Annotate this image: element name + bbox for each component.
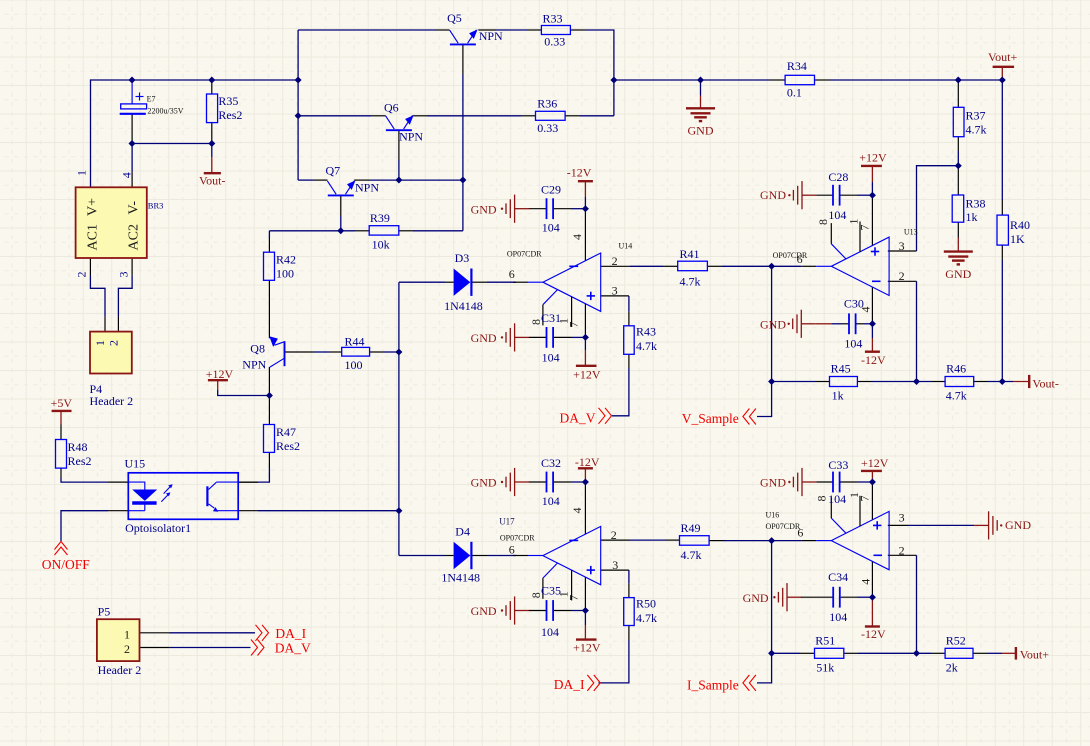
svg-text:U16: U16 (766, 511, 780, 520)
svg-text:Header 2: Header 2 (98, 663, 142, 677)
svg-text:Vout-: Vout- (199, 173, 225, 187)
svg-text:Vout+: Vout+ (988, 50, 1017, 64)
svg-text:3: 3 (899, 239, 905, 253)
svg-text:R35: R35 (218, 94, 238, 108)
svg-text:2: 2 (899, 543, 905, 557)
svg-text:Q5: Q5 (447, 11, 462, 25)
svg-text:NPN: NPN (479, 29, 503, 43)
svg-text:GND: GND (743, 591, 769, 605)
svg-text:U17: U17 (499, 516, 515, 526)
svg-text:+12V: +12V (206, 367, 234, 381)
svg-text:4: 4 (859, 307, 873, 313)
svg-text:8: 8 (816, 219, 830, 225)
svg-text:Q8: Q8 (250, 342, 265, 356)
svg-text:I_Sample: I_Sample (687, 677, 739, 692)
svg-text:D3: D3 (455, 251, 470, 265)
svg-text:104: 104 (828, 208, 846, 222)
svg-text:104: 104 (844, 337, 862, 351)
svg-text:2: 2 (612, 254, 618, 268)
svg-text:Q7: Q7 (326, 164, 341, 178)
svg-text:0.33: 0.33 (537, 121, 558, 135)
svg-text:51k: 51k (816, 660, 834, 674)
svg-text:DA_I: DA_I (275, 626, 306, 641)
svg-text:OP07CDR: OP07CDR (766, 522, 801, 531)
svg-text:R39: R39 (370, 211, 390, 225)
svg-text:100: 100 (276, 267, 294, 281)
svg-text:R43: R43 (636, 325, 656, 339)
svg-text:GND: GND (760, 188, 786, 202)
svg-text:NPN: NPN (242, 357, 266, 371)
svg-text:1: 1 (557, 591, 571, 597)
svg-text:DA_V: DA_V (560, 410, 596, 425)
svg-text:1N4148: 1N4148 (444, 299, 483, 313)
svg-text:R50: R50 (636, 597, 656, 611)
svg-text:C33: C33 (828, 458, 848, 472)
svg-text:100: 100 (345, 358, 363, 372)
svg-text:1: 1 (124, 628, 130, 642)
svg-text:DA_I: DA_I (554, 677, 585, 692)
svg-text:1N4148: 1N4148 (441, 571, 480, 585)
svg-text:4: 4 (570, 508, 584, 514)
svg-text:2: 2 (107, 340, 121, 346)
svg-text:C34: C34 (828, 570, 848, 584)
svg-text:R45: R45 (831, 362, 851, 376)
svg-text:4.7k: 4.7k (681, 548, 702, 562)
svg-text:+12V: +12V (859, 151, 887, 165)
svg-text:0.1: 0.1 (787, 85, 802, 99)
svg-text:R48: R48 (68, 440, 88, 454)
svg-text:P5: P5 (98, 605, 111, 619)
svg-text:GND: GND (760, 476, 786, 490)
svg-text:U13: U13 (904, 228, 918, 237)
svg-text:8: 8 (815, 496, 829, 502)
svg-text:+12V: +12V (573, 368, 601, 382)
svg-text:104: 104 (542, 220, 560, 234)
svg-text:V_Sample: V_Sample (682, 411, 739, 426)
svg-text:C28: C28 (828, 170, 848, 184)
svg-text:3: 3 (612, 284, 618, 298)
svg-text:6: 6 (509, 543, 515, 557)
svg-text:R41: R41 (680, 247, 700, 261)
svg-text:8: 8 (529, 319, 543, 325)
svg-text:Header 2: Header 2 (90, 394, 134, 408)
svg-text:1: 1 (75, 170, 89, 176)
svg-text:1: 1 (847, 219, 861, 225)
svg-text:C32: C32 (541, 456, 561, 470)
svg-text:R47: R47 (276, 425, 296, 439)
svg-text:4.7k: 4.7k (680, 275, 701, 289)
svg-text:104: 104 (542, 494, 560, 508)
svg-text:OP07CDR: OP07CDR (500, 534, 535, 543)
svg-text:Res2: Res2 (276, 439, 300, 453)
svg-text:+5V: +5V (51, 396, 73, 410)
svg-text:R46: R46 (946, 362, 966, 376)
svg-text:6: 6 (797, 526, 803, 540)
svg-text:104: 104 (829, 610, 847, 624)
svg-text:4.7k: 4.7k (636, 611, 657, 625)
svg-text:GND: GND (688, 124, 714, 138)
svg-text:NPN: NPN (399, 130, 423, 144)
svg-text:4: 4 (120, 172, 134, 178)
svg-text:Res2: Res2 (68, 454, 92, 468)
svg-text:8: 8 (529, 592, 543, 598)
svg-text:C29: C29 (541, 182, 561, 196)
svg-text:6: 6 (509, 267, 515, 281)
svg-text:4.7k: 4.7k (966, 123, 987, 137)
svg-text:Vout+: Vout+ (1020, 648, 1049, 662)
svg-text:2: 2 (611, 528, 617, 542)
svg-text:Optoisolator1: Optoisolator1 (125, 521, 191, 535)
svg-text:GND: GND (471, 476, 497, 490)
svg-text:ON/OFF: ON/OFF (42, 557, 91, 572)
svg-text:104: 104 (542, 351, 560, 365)
svg-text:GND: GND (471, 202, 497, 216)
svg-text:GND: GND (945, 267, 971, 281)
svg-text:AC2: AC2 (127, 224, 142, 250)
svg-text:2k: 2k (946, 660, 958, 674)
svg-text:GND: GND (1005, 518, 1031, 532)
svg-text:R52: R52 (946, 633, 966, 647)
svg-text:0.33: 0.33 (544, 34, 565, 48)
svg-text:2: 2 (75, 272, 89, 278)
svg-text:3: 3 (117, 272, 131, 278)
svg-text:R42: R42 (276, 252, 296, 266)
svg-text:6: 6 (797, 252, 803, 266)
svg-text:U14: U14 (619, 241, 633, 250)
svg-text:1: 1 (93, 340, 107, 346)
svg-text:GND: GND (471, 604, 497, 618)
svg-text:Q6: Q6 (384, 101, 399, 115)
svg-text:1: 1 (557, 318, 571, 324)
svg-text:-12V: -12V (861, 627, 886, 641)
svg-text:R38: R38 (966, 197, 986, 211)
svg-text:104: 104 (828, 492, 846, 506)
svg-text:E7: E7 (147, 94, 156, 103)
svg-text:3: 3 (612, 558, 618, 572)
svg-text:R37: R37 (966, 108, 986, 122)
svg-text:GND: GND (760, 318, 786, 332)
svg-text:4.7k: 4.7k (946, 388, 967, 402)
svg-text:1k: 1k (966, 210, 978, 224)
svg-text:GND: GND (471, 331, 497, 345)
svg-text:OP07CDR: OP07CDR (773, 251, 808, 260)
svg-text:BR3: BR3 (148, 200, 164, 210)
svg-text:2: 2 (899, 269, 905, 283)
svg-text:+12V: +12V (861, 456, 889, 470)
svg-text:NPN: NPN (355, 181, 379, 195)
svg-text:4.7k: 4.7k (636, 339, 657, 353)
svg-text:10k: 10k (372, 238, 390, 252)
svg-text:Vout-: Vout- (1032, 376, 1058, 390)
svg-text:3: 3 (899, 511, 905, 525)
svg-text:R36: R36 (537, 96, 557, 110)
svg-text:U15: U15 (125, 456, 146, 470)
svg-text:-12V: -12V (575, 455, 600, 469)
svg-text:V+: V+ (86, 198, 101, 216)
svg-text:D4: D4 (455, 525, 470, 539)
svg-text:104: 104 (541, 625, 559, 639)
svg-text:-12V: -12V (567, 165, 592, 179)
svg-text:R40: R40 (1010, 218, 1030, 232)
svg-text:4: 4 (859, 579, 873, 585)
svg-text:R33: R33 (543, 12, 563, 26)
svg-text:2: 2 (124, 642, 130, 656)
svg-text:-12V: -12V (861, 353, 886, 367)
svg-text:OP07CDR: OP07CDR (507, 250, 542, 259)
svg-text:R44: R44 (345, 335, 365, 349)
svg-text:4: 4 (570, 234, 584, 240)
svg-text:R51: R51 (815, 633, 835, 647)
svg-text:R49: R49 (681, 521, 701, 535)
svg-text:1k: 1k (832, 388, 844, 402)
svg-text:2200u/35V: 2200u/35V (148, 107, 184, 116)
svg-text:DA_V: DA_V (275, 641, 311, 656)
svg-text:+12V: +12V (573, 641, 601, 655)
svg-text:R34: R34 (787, 59, 807, 73)
svg-text:AC1: AC1 (86, 224, 101, 250)
svg-text:1K: 1K (1010, 232, 1025, 246)
svg-text:1: 1 (847, 492, 861, 498)
svg-text:Res2: Res2 (218, 108, 242, 122)
svg-text:V-: V- (127, 201, 142, 215)
